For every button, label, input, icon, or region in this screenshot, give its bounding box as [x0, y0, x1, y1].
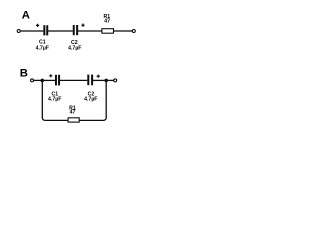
wire R1 to right branch up (B): [79, 80, 106, 120]
capacitor C2 (A): [73, 25, 78, 35]
capacitor C2 (B): [87, 75, 93, 86]
svg-text:47: 47: [104, 19, 110, 25]
node junction right (B): [104, 79, 108, 83]
terminal left (circuit A): [17, 30, 20, 33]
svg-text:4.7µF: 4.7µF: [84, 96, 97, 102]
wire terminal to node (B): [34, 79, 42, 81]
wire C2 to R1 (A): [78, 30, 102, 32]
wire C1 to C2 (B): [60, 79, 87, 81]
svg-text:B: B: [20, 68, 28, 80]
polarity + of C2 (A): [81, 24, 84, 27]
wire node to C1 (B): [42, 79, 55, 81]
resistor R1 (A): [102, 29, 114, 34]
capacitor C1 (A): [43, 25, 48, 35]
svg-text:4.7µF: 4.7µF: [48, 96, 61, 102]
terminal left (circuit B): [31, 79, 34, 82]
polarity + of C1 (A): [36, 24, 39, 27]
terminal right (circuit B): [114, 79, 117, 82]
wire left branch down to R1 (B): [42, 80, 68, 120]
resistor R1 (B): [68, 118, 79, 122]
svg-text:A: A: [22, 10, 30, 22]
terminal right (circuit A): [132, 30, 135, 33]
node junction left (B): [41, 79, 45, 83]
svg-text:4.7µF: 4.7µF: [68, 45, 81, 51]
svg-text:4.7µF: 4.7µF: [36, 45, 49, 51]
wire node to right terminal (B): [106, 79, 113, 81]
capacitor C1 (B): [55, 75, 60, 86]
wire R1 to right terminal (A): [114, 30, 133, 32]
polarity + of C1 (B): [49, 74, 52, 77]
wire C2 to node (B): [93, 79, 106, 81]
svg-text:47: 47: [70, 110, 76, 116]
wire terminal to C1 (A): [20, 30, 43, 32]
wire C1 to C2 (A): [48, 30, 73, 32]
polarity + of C2 (B): [97, 75, 100, 78]
